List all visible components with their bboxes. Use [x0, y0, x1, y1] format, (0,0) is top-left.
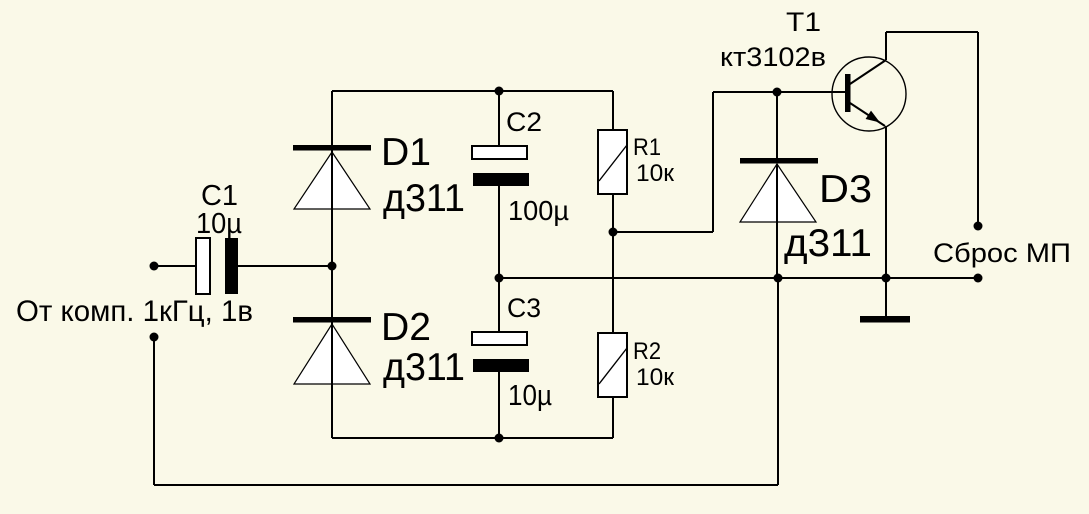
diode D2 triangle	[294, 324, 370, 384]
wire: to transistor base	[713, 91, 845, 93]
wire: collector top horizontal	[886, 31, 978, 33]
wire: mid rail	[499, 277, 978, 279]
node B: R1/R2 junction	[609, 228, 618, 237]
svg-text:D1: D1	[381, 131, 431, 174]
svg-text:Сброс МП: Сброс МП	[933, 238, 1071, 268]
diode D3 cathode bar	[740, 158, 818, 164]
wire: bottom return (horizontal)	[154, 484, 778, 486]
node: input bottom terminal	[150, 333, 159, 342]
wire: bottom return (left vertical)	[153, 337, 155, 485]
svg-text:100µ: 100µ	[508, 195, 569, 226]
wire: output drop	[977, 32, 979, 226]
svg-text:T1: T1	[786, 7, 821, 37]
wire: R1 to junction node	[612, 194, 614, 232]
value 10µ (C3)	[508, 380, 552, 412]
transistor T1 body circle	[832, 57, 906, 131]
wire: top rail to R1	[612, 91, 614, 130]
label T1	[786, 7, 821, 37]
value д311 (D2)	[383, 346, 465, 389]
wire: C2 to mid rail	[498, 186, 500, 278]
svg-text:C3: C3	[507, 293, 541, 323]
svg-text:10к: 10к	[636, 364, 675, 391]
svg-text:кт3102в: кт3102в	[720, 42, 826, 72]
node: D3 top junction on base wire	[773, 88, 782, 97]
label Сброс МП	[933, 238, 1071, 268]
svg-text:д311: д311	[383, 177, 465, 220]
svg-text:C2: C2	[506, 107, 542, 137]
svg-text:От комп. 1кГц, 1в: От комп. 1кГц, 1в	[16, 295, 253, 328]
node: output top terminal	[974, 222, 983, 231]
wire: top rail	[332, 90, 613, 92]
node: mid rail / C2-C3 junction	[495, 274, 504, 283]
resistor R1 body	[598, 130, 627, 194]
wire: R1/R2 junction to base riser (horizontal)	[613, 231, 713, 233]
node: output bottom terminal (mid rail end)	[974, 274, 983, 283]
label R2	[633, 338, 661, 365]
label C2	[506, 107, 542, 137]
value д311 (D3)	[784, 222, 872, 265]
label D3	[819, 168, 872, 211]
transistor T1 emitter stroke with arrow	[850, 103, 885, 126]
wire: input to C1	[154, 265, 197, 267]
resistor R2 body	[598, 333, 627, 397]
transistor T1 base bar	[845, 74, 851, 112]
wire: mid rail to C3	[498, 278, 500, 332]
wire: R2 to sub-rail	[612, 397, 614, 438]
wire: D3 top lead	[776, 92, 778, 158]
capacitor C1 plate (right, filled)	[225, 238, 238, 294]
diode D1 triangle	[294, 152, 370, 209]
value 10к (R1)	[636, 160, 675, 187]
value д311 (D1)	[383, 177, 465, 220]
diode D3 triangle	[740, 164, 816, 222]
capacitor C2 plate (bottom, filled)	[473, 173, 529, 186]
wire: emitter down through mid rail to ground	[885, 126, 887, 316]
svg-text:10к: 10к	[636, 160, 675, 187]
wire: lower sub-rail	[332, 437, 613, 439]
diode D1 cathode bar	[293, 145, 371, 151]
value 10к (R2)	[636, 364, 675, 391]
diode D2 cathode bar	[293, 317, 371, 323]
value 10µ (C1)	[196, 208, 242, 240]
capacitor C2 plate (top, outlined)	[472, 146, 527, 159]
node: input top terminal	[150, 262, 159, 271]
label D2	[381, 306, 431, 349]
svg-text:D2: D2	[381, 306, 431, 349]
svg-text:R2: R2	[633, 338, 661, 365]
node A: D1/D2 junction	[328, 262, 337, 271]
value 100µ	[508, 195, 569, 226]
capacitor C1 plate (left, outlined)	[196, 238, 210, 294]
svg-text:д311: д311	[383, 346, 465, 389]
node: D3 / mid rail / return junction	[774, 274, 783, 283]
svg-text:D3: D3	[819, 168, 872, 211]
wire: C3 to lower sub-rail	[498, 372, 500, 438]
value кт3102в	[720, 42, 826, 72]
wire: top rail to C2	[498, 91, 500, 146]
capacitor C3 plate (bottom, filled)	[473, 359, 529, 372]
label R1	[633, 134, 661, 161]
node: emitter / mid rail junction	[882, 274, 891, 283]
node: C3 / sub-rail junction	[495, 434, 504, 443]
svg-text:R1: R1	[633, 134, 661, 161]
svg-text:10µ: 10µ	[508, 380, 552, 412]
node: top rail / C2 junction	[495, 87, 504, 96]
wire: base riser (vertical)	[712, 92, 714, 232]
wire: bottom return (right vertical up to mid rail)	[777, 278, 779, 485]
label C1	[201, 180, 238, 212]
label D1	[381, 131, 431, 174]
label: От комп. 1кГц, 1в	[16, 295, 253, 328]
wire: C1 to D1/D2 junction	[238, 265, 332, 267]
svg-text:10µ: 10µ	[196, 208, 242, 240]
wire: collector up	[885, 32, 887, 60]
wire: R1/R2 vertical through mid rail (no junction)	[612, 232, 614, 333]
capacitor C3 plate (top, outlined)	[472, 332, 527, 345]
wire: D3 bottom lead	[776, 222, 778, 278]
transistor T1 collector stroke	[850, 60, 886, 84]
ground	[860, 316, 910, 323]
label C3	[507, 293, 541, 323]
svg-text:д311: д311	[784, 222, 872, 265]
wire: left branch vertical (through D1 and D2)	[331, 91, 333, 438]
